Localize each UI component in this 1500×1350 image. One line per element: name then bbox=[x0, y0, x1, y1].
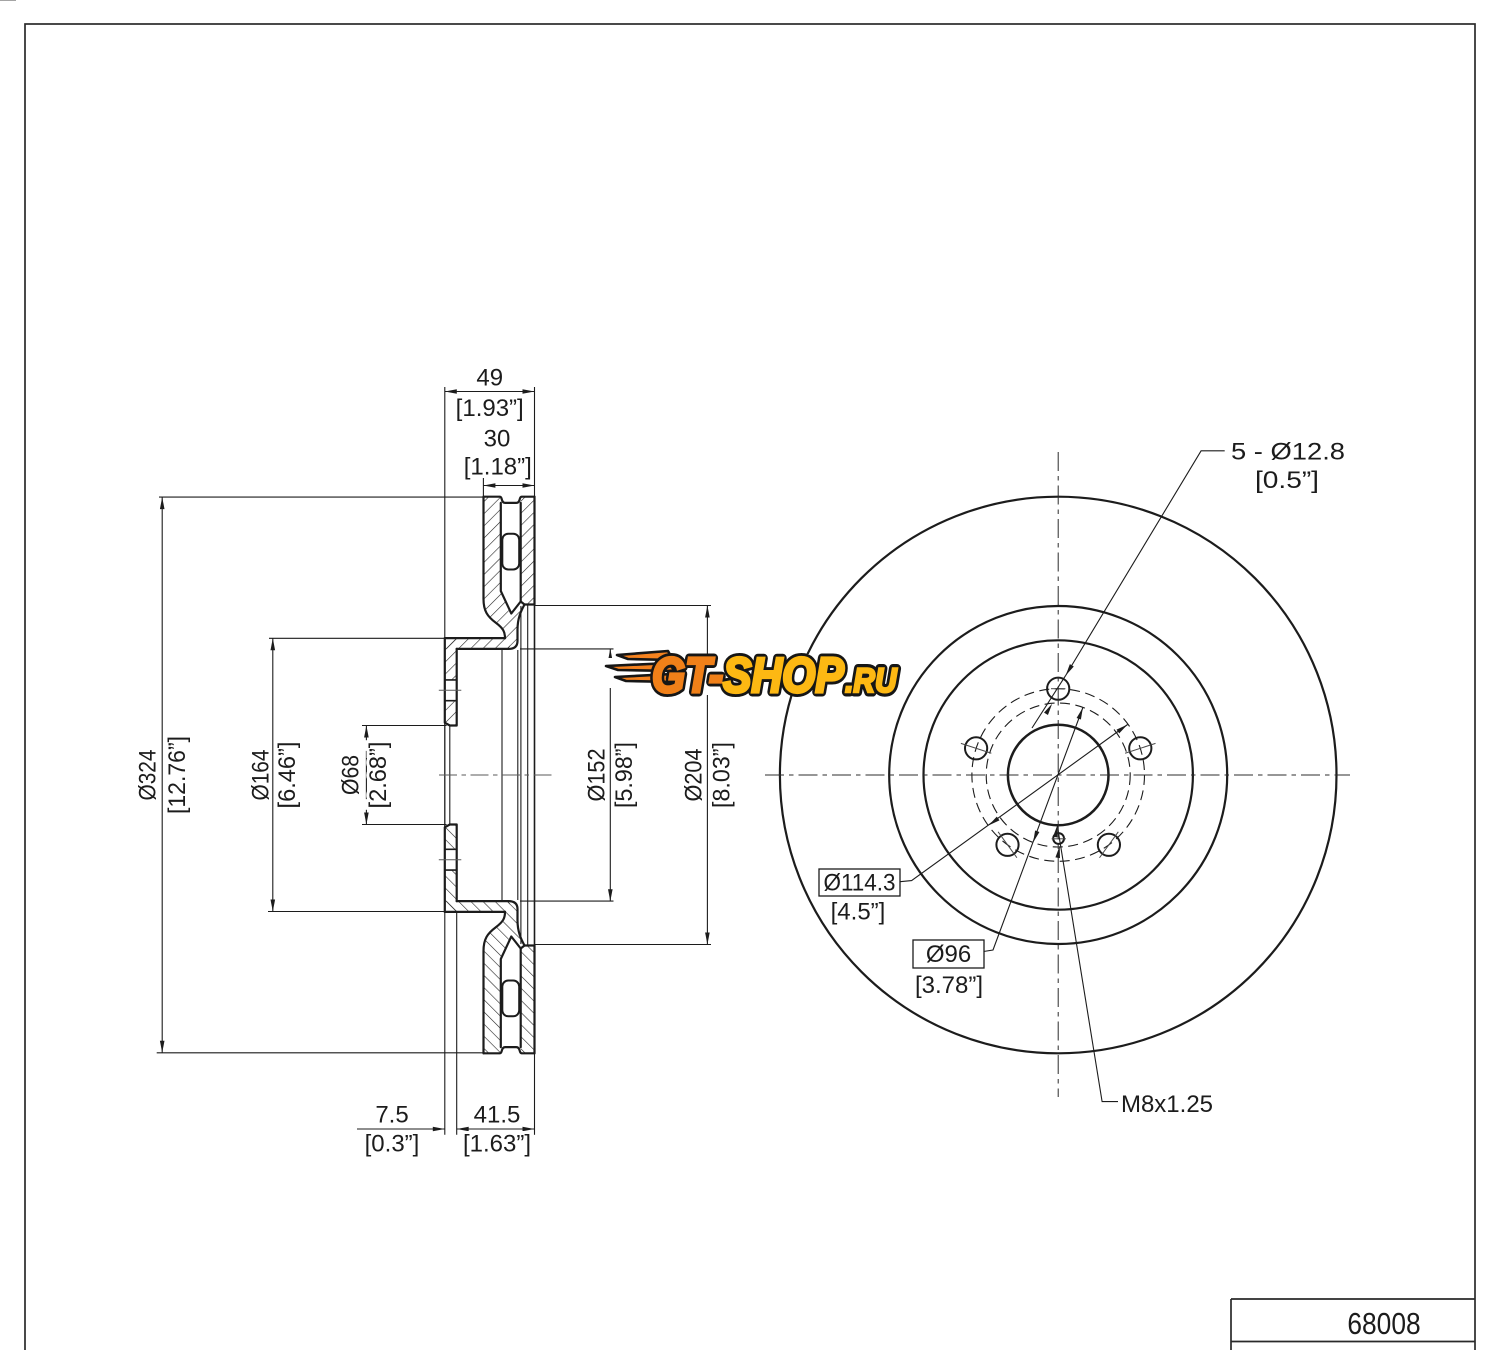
svg-text:Ø324: Ø324 bbox=[134, 750, 161, 801]
svg-text:30: 30 bbox=[484, 426, 511, 453]
svg-text:[3.78”]: [3.78”] bbox=[915, 972, 983, 999]
svg-text:[6.46”]: [6.46”] bbox=[274, 742, 301, 809]
svg-text:[2.68”]: [2.68”] bbox=[365, 742, 392, 809]
svg-text:[12.76”]: [12.76”] bbox=[164, 736, 191, 814]
svg-text:41.5: 41.5 bbox=[474, 1102, 521, 1129]
svg-text:Ø68: Ø68 bbox=[338, 755, 365, 795]
svg-text:Ø152: Ø152 bbox=[583, 749, 610, 802]
svg-text:.RU: .RU bbox=[845, 661, 897, 699]
svg-text:68008: 68008 bbox=[1347, 1307, 1420, 1341]
svg-text:7.5: 7.5 bbox=[375, 1102, 408, 1129]
svg-text:Ø114.3: Ø114.3 bbox=[824, 870, 896, 897]
svg-text:Ø96: Ø96 bbox=[926, 941, 971, 968]
svg-text:[1.18”]: [1.18”] bbox=[464, 454, 532, 481]
svg-text:[4.5”]: [4.5”] bbox=[831, 899, 886, 926]
svg-text:[1.63”]: [1.63”] bbox=[463, 1131, 531, 1158]
svg-text:[1.93”]: [1.93”] bbox=[456, 395, 524, 422]
svg-text:[5.98”]: [5.98”] bbox=[611, 742, 638, 808]
svg-text:49: 49 bbox=[476, 365, 503, 392]
svg-text:[8.03”]: [8.03”] bbox=[708, 742, 735, 808]
svg-text:SHOP: SHOP bbox=[723, 647, 844, 702]
svg-text:Ø204: Ø204 bbox=[680, 749, 707, 802]
svg-text:GT-: GT- bbox=[652, 647, 723, 702]
svg-text:[0.5”]: [0.5”] bbox=[1255, 467, 1319, 494]
svg-text:[0.3”]: [0.3”] bbox=[365, 1131, 420, 1158]
svg-text:Ø164: Ø164 bbox=[247, 750, 274, 801]
svg-text:M8x1.25: M8x1.25 bbox=[1121, 1091, 1213, 1118]
svg-text:5 - Ø12.8: 5 - Ø12.8 bbox=[1231, 439, 1345, 466]
